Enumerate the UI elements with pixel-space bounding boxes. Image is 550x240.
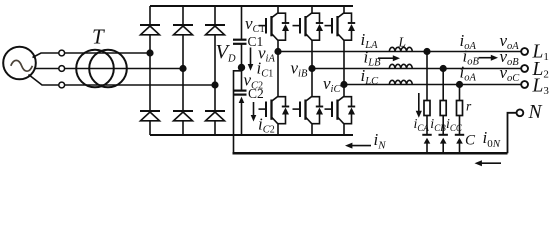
node inverter out C <box>341 82 347 88</box>
igbt U3 top leg C <box>325 7 356 85</box>
terminal c <box>59 82 65 88</box>
node phase b junction <box>180 66 186 72</box>
dc link branch upper <box>241 6 243 39</box>
capacitor C2 <box>233 91 247 95</box>
wire output line B <box>312 68 521 70</box>
wire C2 to bottom bus with vC2 arrow <box>239 97 245 135</box>
svg-text:r: r <box>466 99 472 114</box>
igbt U4 bottom leg A <box>259 52 290 136</box>
wire phase c source to terminal <box>29 75 59 86</box>
diode D6 <box>205 111 225 121</box>
wire C1 to midpoint <box>241 45 243 68</box>
wire neutral to N terminal <box>508 113 517 154</box>
current arrow iLB <box>378 55 400 61</box>
diode D3 <box>205 25 225 35</box>
terminal a <box>59 50 65 56</box>
ac sine symbol <box>11 60 33 71</box>
diode D4 <box>140 111 160 121</box>
wire phase a source to terminal <box>33 53 59 58</box>
svg-text:C: C <box>465 133 476 149</box>
current arrow iCA <box>416 93 422 118</box>
rc branch A <box>422 52 431 153</box>
wire midpoint to C2 <box>241 70 243 90</box>
current arrow iC2 <box>251 102 257 122</box>
svg-text:viC: viC <box>323 74 341 95</box>
svg-text:VD: VD <box>216 41 237 64</box>
inductor LB <box>389 64 412 68</box>
wire output line C <box>344 84 521 86</box>
wire output line A <box>278 51 521 53</box>
svg-text:L: L <box>398 35 407 50</box>
rectifier leg 3 <box>214 6 216 135</box>
dc top bus <box>150 5 353 7</box>
node filter tap C <box>457 82 463 88</box>
node inverter out A <box>275 49 281 55</box>
svg-text:N: N <box>528 102 543 123</box>
svg-text:iN: iN <box>374 130 387 151</box>
node filter tap A <box>424 49 430 55</box>
inductor LC <box>389 80 412 84</box>
wire phase b source to terminal <box>34 68 59 70</box>
svg-text:iCC: iCC <box>446 117 463 133</box>
wire phase c to rectifier <box>65 84 215 86</box>
current arrow iN <box>345 143 371 149</box>
igbt U2 top leg B <box>293 7 324 69</box>
rc branch B <box>439 69 448 153</box>
terminal N <box>517 109 524 116</box>
igbt U5 bottom leg B <box>293 69 324 136</box>
wire phase b to rectifier <box>65 68 183 70</box>
node filter tap B <box>440 66 446 72</box>
dc bottom bus <box>150 134 353 136</box>
svg-text:T: T <box>92 25 105 49</box>
svg-text:viB: viB <box>291 59 308 80</box>
ac source <box>3 47 36 80</box>
neutral bus <box>233 152 508 155</box>
diode D1 <box>140 25 160 35</box>
wire midpoint to neutral <box>234 68 242 153</box>
current arrow iC1 <box>248 48 254 71</box>
igbt U6 bottom leg C <box>325 85 356 136</box>
current arrow i0N <box>475 160 502 166</box>
node inverter out B <box>309 66 315 72</box>
svg-text:C2: C2 <box>248 86 264 101</box>
node phase c junction <box>212 82 218 88</box>
svg-text:viA: viA <box>258 44 275 65</box>
igbt U1 top leg A <box>259 7 290 52</box>
node dc midpoint <box>239 65 245 71</box>
node phase a junction <box>147 50 153 56</box>
wire phase a to rectifier <box>65 52 150 54</box>
rectifier leg 1 <box>149 6 151 135</box>
rectifier leg 2 <box>182 6 184 135</box>
terminal b <box>59 66 65 72</box>
terminal L2 <box>521 65 528 72</box>
capacitor C1 <box>233 40 247 44</box>
current arrow ioB <box>479 55 499 61</box>
diode D5 <box>173 111 193 121</box>
terminal L1 <box>521 48 528 55</box>
inductor LA <box>389 47 412 51</box>
svg-text:vC1: vC1 <box>245 14 265 35</box>
terminal L3 <box>521 81 528 88</box>
svg-text:i0N: i0N <box>483 128 501 150</box>
transformer T <box>76 50 114 88</box>
diode D2 <box>173 25 193 35</box>
rc branch C <box>455 85 464 153</box>
